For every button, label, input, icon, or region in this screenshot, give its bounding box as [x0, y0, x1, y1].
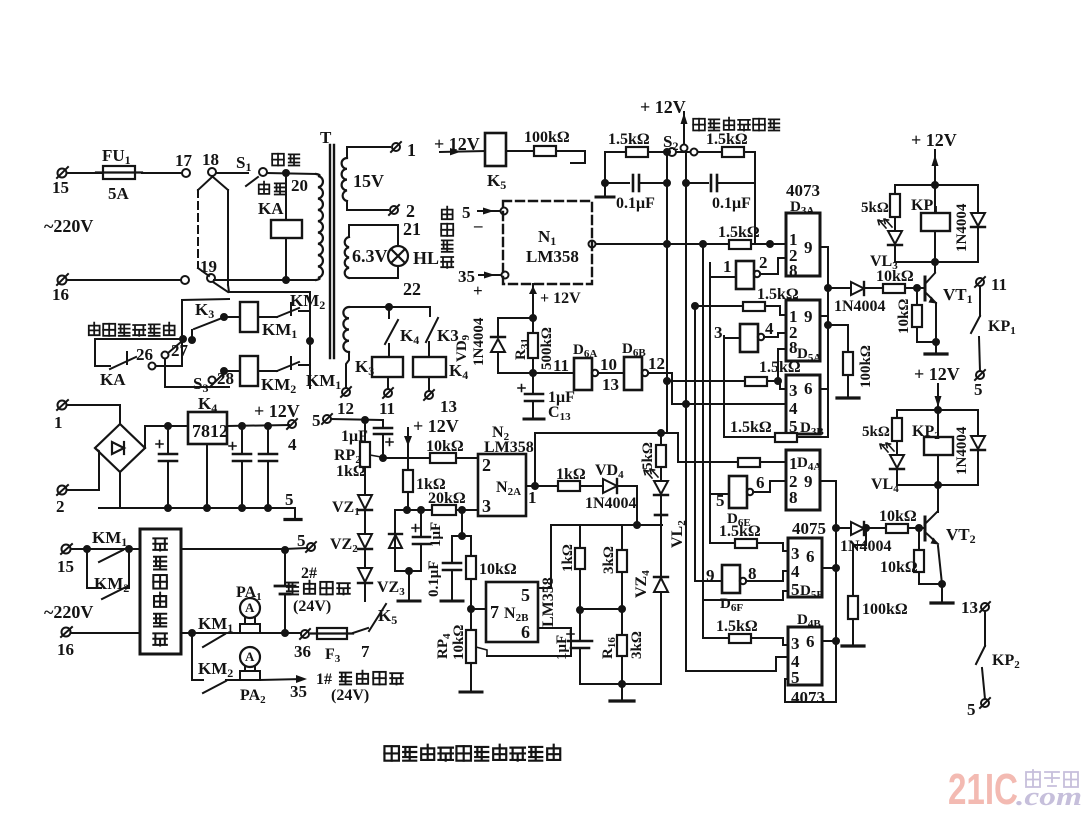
- left branch diode: [394, 510, 396, 571]
- svg-text:3: 3: [482, 496, 491, 516]
- K4 coil to terminal 13: [428, 377, 430, 391]
- working indicator text vertical: [441, 207, 453, 268]
- svg-text:20: 20: [291, 176, 308, 195]
- wire PA2 to terminal 35: [226, 679, 240, 681]
- zener VZ4: [654, 577, 668, 592]
- KM1 blade lower: [99, 550, 123, 562]
- svg-text:10kΩ: 10kΩ: [426, 438, 464, 455]
- caption and watermark: [384, 745, 1082, 814]
- svg-text:–: –: [473, 216, 483, 235]
- transistor VT1: [934, 262, 936, 272]
- wire to KM1 coil: [224, 316, 240, 318]
- pot RP2 1k: [360, 420, 381, 495]
- switch pole 19: [207, 274, 215, 282]
- charger output top wire: [181, 548, 285, 550]
- D3B pin6 stub: [820, 388, 828, 390]
- K3 coil to terminal 11: [387, 377, 389, 389]
- svg-text:3kΩ: 3kΩ: [629, 631, 645, 659]
- inverter D6E: [729, 476, 747, 508]
- S2 to second contact: [676, 151, 690, 153]
- contact circle auto: [259, 168, 267, 176]
- label shou-dong (manual): [259, 182, 286, 195]
- svg-text:LM358: LM358: [526, 247, 579, 266]
- contact KM2 NC: [258, 316, 277, 318]
- svg-text:5: 5: [285, 490, 294, 509]
- resistor R16 3k: [621, 609, 623, 635]
- battery 2 cell: [275, 550, 295, 633]
- vertical bus x667: [666, 152, 668, 433]
- svg-text:+ 12V: + 12V: [914, 364, 960, 384]
- svg-text:1N4004: 1N4004: [954, 426, 970, 475]
- svg-text:1N4004: 1N4004: [954, 203, 970, 252]
- svg-text:36: 36: [294, 642, 311, 661]
- svg-text:2: 2: [482, 455, 491, 475]
- svg-text:3: 3: [791, 544, 800, 563]
- svg-text:21: 21: [403, 219, 421, 239]
- svg-text:HL: HL: [413, 248, 439, 268]
- bus end down stub: [294, 508, 296, 518]
- inverter D6F: [722, 565, 740, 593]
- svg-text:1.5kΩ: 1.5kΩ: [759, 359, 801, 376]
- svg-text:15: 15: [52, 178, 69, 197]
- N1 dashed box: [503, 201, 592, 284]
- svg-text:15: 15: [57, 557, 74, 576]
- svg-text:9: 9: [706, 566, 715, 585]
- wire to terminal 36: [285, 632, 301, 634]
- svg-text:(24V): (24V): [331, 687, 369, 704]
- KA contact circle: [149, 363, 156, 370]
- label gui-zheng-liu-chong-dian-qi vertical: [153, 538, 167, 645]
- contact KM1 NC: [258, 370, 277, 372]
- svg-text:1.5kΩ: 1.5kΩ: [608, 131, 650, 148]
- aux bottom to terminal 12: [346, 352, 349, 388]
- switch K4 contact: [385, 307, 398, 344]
- svg-text:KA: KA: [100, 370, 126, 389]
- 1.5k Rd: [724, 436, 775, 438]
- right bus x836: [820, 481, 836, 702]
- wire PA1 to battery node: [260, 632, 285, 634]
- wire down to KA coil: [285, 173, 287, 220]
- diode VD4: [603, 479, 617, 493]
- svg-text:5A: 5A: [108, 184, 130, 203]
- diode VD9 R31 C13 cluster: [532, 284, 534, 318]
- regulator 7812: [188, 412, 227, 444]
- wire to KM2 coil: [224, 370, 240, 372]
- inverter D6B: [624, 357, 642, 390]
- svg-text:4073: 4073: [786, 181, 820, 200]
- secondary 6.3V winding: [345, 237, 349, 278]
- caption auto rotation auto charging circuit: [384, 745, 560, 761]
- pin7 wire: [471, 608, 486, 610]
- S1 right solid link: [213, 177, 228, 190]
- secondary 15V winding: [342, 158, 347, 201]
- base resistor chain: [828, 287, 851, 289]
- svg-text:13: 13: [440, 397, 457, 416]
- relay K5 box: [485, 133, 506, 166]
- svg-text:10kΩ: 10kΩ: [880, 559, 918, 576]
- svg-text:9: 9: [804, 307, 813, 326]
- switch K3 contact: [426, 307, 438, 342]
- pin5 riser: [538, 525, 551, 588]
- resistor 5k VL3: [894, 185, 896, 194]
- KM2 parallel contact: [87, 549, 101, 588]
- svg-text:+ 12V: + 12V: [911, 130, 957, 150]
- pin3 wire y510: [395, 509, 478, 511]
- svg-text:10: 10: [600, 355, 617, 374]
- watermark dianziwang: [1026, 770, 1078, 787]
- wire 26 down to lower run: [165, 359, 229, 387]
- svg-text:0.1μF: 0.1μF: [426, 561, 442, 597]
- svg-text:20kΩ: 20kΩ: [428, 490, 466, 507]
- svg-text:1kΩ: 1kΩ: [556, 466, 586, 483]
- wire 19 to primary bottom: [214, 279, 316, 281]
- diode 1N4004 KP1: [977, 185, 979, 213]
- svg-text:6: 6: [756, 473, 765, 492]
- vertical bus x724: [723, 336, 725, 437]
- resistor 1k chain: [579, 525, 581, 548]
- N1 pin 5 input: [501, 208, 508, 215]
- svg-text:4075: 4075: [792, 519, 826, 538]
- svg-text:1#: 1#: [316, 671, 332, 688]
- svg-text:10kΩ: 10kΩ: [879, 508, 917, 525]
- S1 blade 18 to auto contact: [216, 172, 248, 174]
- svg-text:8: 8: [789, 261, 798, 280]
- label zi-dong (auto): [272, 154, 299, 166]
- svg-text:100kΩ: 100kΩ: [524, 129, 570, 146]
- cap 0.1uF second: [686, 182, 708, 184]
- svg-text:4: 4: [789, 399, 798, 418]
- svg-text:9: 9: [804, 472, 813, 491]
- svg-text:.com: .com: [1016, 782, 1082, 811]
- svg-text:3: 3: [791, 634, 800, 653]
- svg-text:1: 1: [407, 140, 416, 160]
- D5A pin9 stub: [820, 315, 828, 317]
- svg-text:2: 2: [56, 497, 65, 516]
- wire from 19 down-jogs: [228, 285, 310, 292]
- svg-text:2: 2: [406, 201, 415, 221]
- wire 100k hook: [556, 151, 585, 163]
- inverter D6A: [574, 358, 592, 390]
- D4B pin6 stub: [822, 640, 836, 642]
- N2A output node: [532, 483, 538, 489]
- op-amp N2B box: [486, 582, 538, 642]
- D6B output run to D3B pin4: [648, 373, 786, 404]
- switch S1 pole 18: [208, 168, 216, 176]
- wire F3 to K5: [353, 628, 368, 633]
- diode 1N4004 KP2: [977, 410, 979, 436]
- 6.3V loop bottom: [349, 266, 398, 278]
- 7812 output rail: [227, 425, 289, 426]
- vertical bus x710: [709, 263, 711, 543]
- svg-text:10kΩ: 10kΩ: [479, 561, 517, 578]
- svg-text:1N4004: 1N4004: [585, 495, 637, 512]
- cap 1uF branch: [420, 510, 422, 535]
- VL4 bottom rail: [897, 484, 978, 486]
- svg-text:3: 3: [714, 323, 723, 342]
- wire wiper node to N2A pin2: [383, 457, 478, 459]
- 1.5k first: [605, 151, 626, 153]
- gate D3B: [786, 375, 820, 434]
- bridge right to 7812: [145, 426, 188, 448]
- svg-text:+ 12V: + 12V: [640, 97, 686, 117]
- svg-text:4: 4: [288, 435, 297, 454]
- wire K5 to 100k: [506, 150, 534, 152]
- svg-text:5: 5: [312, 411, 321, 430]
- vertical bus x686: [685, 154, 687, 671]
- cap C-out2: [259, 426, 277, 508]
- wire fuse to 17: [142, 172, 181, 174]
- switch K5 blade: [365, 583, 386, 631]
- svg-text:16: 16: [57, 640, 74, 659]
- cap 0.1uF first: [605, 152, 629, 183]
- N1 output pin: [589, 241, 596, 248]
- svg-text:22: 22: [403, 279, 421, 299]
- svg-text:11: 11: [991, 275, 1007, 294]
- svg-text:7812: 7812: [192, 421, 228, 441]
- svg-text:1μF: 1μF: [428, 522, 444, 547]
- cap 0.1uF branch: [452, 510, 462, 536]
- svg-text:1kΩ: 1kΩ: [560, 544, 576, 572]
- label auto-charge-select: [693, 118, 779, 131]
- resistor 3k chain: [621, 525, 623, 550]
- svg-text:35: 35: [290, 682, 307, 701]
- blade 26 to 27: [168, 342, 181, 353]
- svg-text:5: 5: [791, 668, 800, 687]
- D5B pin6 stub: [822, 567, 836, 569]
- svg-text:A: A: [245, 600, 255, 615]
- svg-text:6: 6: [806, 632, 815, 651]
- bridge rectifier: [95, 424, 145, 472]
- svg-text:21IC: 21IC: [948, 765, 1018, 814]
- N1 pin 35 input: [502, 272, 509, 279]
- svg-text:17: 17: [175, 151, 193, 170]
- svg-text:10kΩ: 10kΩ: [876, 268, 914, 285]
- gate D4B: [788, 627, 822, 685]
- bottom tie and gnd: [395, 570, 421, 572]
- svg-text:4073: 4073: [791, 688, 825, 707]
- svg-text:1.5kΩ: 1.5kΩ: [718, 224, 760, 241]
- relay coil KM2: [240, 356, 258, 386]
- 10k pulldown VT2: [918, 528, 920, 550]
- charger lower output: [181, 632, 240, 634]
- ammeter PA2: [240, 647, 260, 680]
- gate D4A: [786, 450, 820, 510]
- svg-text:5kΩ: 5kΩ: [640, 442, 656, 470]
- terminal 15: [57, 167, 68, 178]
- wire 15V bottom to terminal 2: [347, 201, 388, 210]
- svg-text:+ 12V: + 12V: [540, 290, 581, 307]
- relay coil KM1: [240, 302, 258, 332]
- svg-text:(24V): (24V): [293, 598, 331, 615]
- svg-text:26: 26: [136, 345, 153, 364]
- svg-text:7: 7: [361, 642, 370, 661]
- svg-text:6.3V: 6.3V: [352, 246, 388, 266]
- KM2 meter branch: [192, 633, 203, 680]
- D5B pin5 loop: [703, 591, 788, 600]
- VT2 base chain: [836, 527, 851, 529]
- wire 5 to node: [331, 419, 383, 420]
- transformer T core: [330, 145, 334, 358]
- svg-text:1: 1: [54, 413, 63, 432]
- pin6 feedback wire: [487, 628, 571, 656]
- svg-text:5: 5: [521, 585, 530, 605]
- wire 2 to bridge left: [67, 449, 99, 490]
- LED VL2: [660, 467, 662, 481]
- wire 1 to bridge: [67, 405, 120, 424]
- gate D5A: [786, 300, 820, 361]
- relay coil K3: [388, 344, 390, 357]
- 1.5k second: [698, 151, 722, 153]
- ammeter PA1: [240, 598, 260, 633]
- svg-text:5: 5: [967, 700, 976, 719]
- svg-text:12: 12: [337, 399, 354, 418]
- VL3 bottom rail: [895, 261, 978, 263]
- svg-text:5: 5: [462, 203, 471, 222]
- svg-text:LM358: LM358: [540, 577, 557, 627]
- terminal 4: [287, 419, 297, 429]
- terminal 16 lower: [61, 627, 72, 637]
- relay coil K4: [428, 342, 430, 357]
- 6.3V loop top: [349, 225, 398, 246]
- svg-text:~220V: ~220V: [44, 216, 93, 236]
- svg-text:13: 13: [602, 375, 619, 394]
- VD4 to node: [617, 486, 637, 525]
- svg-text:1kΩ: 1kΩ: [336, 463, 366, 480]
- svg-text:1N4004: 1N4004: [471, 317, 487, 366]
- branch to 1.5k D4A: [661, 433, 738, 462]
- S1 ganged-link dashed: [198, 177, 212, 190]
- wire manual select: [95, 338, 183, 340]
- gate D3A: [786, 213, 820, 276]
- 1.5k Re to D4A: [738, 458, 760, 467]
- svg-text:5kΩ: 5kΩ: [862, 424, 890, 440]
- wire 15V top to terminal 1: [347, 147, 390, 158]
- aux top wire: [349, 306, 430, 308]
- bridge bottom to gnd bus: [119, 472, 121, 508]
- svg-text:1.5kΩ: 1.5kΩ: [716, 618, 758, 635]
- svg-text:15V: 15V: [353, 171, 384, 191]
- svg-text:6: 6: [521, 622, 530, 642]
- svg-text:A: A: [245, 649, 255, 664]
- svg-text:16: 16: [52, 285, 69, 304]
- 1.5k Ra: [729, 240, 751, 249]
- wire 15 to fuse: [67, 172, 103, 174]
- svg-text:+ 12V: + 12V: [413, 416, 459, 436]
- resistor 5k vertical: [660, 433, 662, 445]
- 100k to gnd: [828, 325, 848, 352]
- 1.5k Rb to D5A: [695, 305, 743, 307]
- wire KA to lower rail: [285, 238, 287, 280]
- svg-text:2: 2: [759, 253, 768, 272]
- KP1 contact: [975, 277, 985, 287]
- D4B pin4 wire: [686, 657, 788, 671]
- svg-text:+: +: [473, 281, 483, 300]
- resistor 1k vertical: [403, 470, 413, 492]
- node circle before 19: [181, 276, 189, 284]
- wire 16 to switch 19: [67, 279, 181, 281]
- svg-text:10kΩ: 10kΩ: [451, 625, 467, 660]
- fuse F3: [311, 628, 353, 639]
- svg-text:4: 4: [791, 562, 800, 581]
- 1.5k Rg to D4B: [703, 637, 729, 639]
- zener VZ3: [364, 549, 366, 568]
- svg-text:12: 12: [648, 354, 665, 373]
- vertical bus right of KM coils: [309, 292, 311, 388]
- wire 15 to charger: [71, 548, 140, 550]
- output to 1k VD4: [535, 485, 558, 487]
- wire to terminal 5 battery: [285, 548, 306, 549]
- VD9 loop: [498, 318, 533, 336]
- svg-text:1.5kΩ: 1.5kΩ: [730, 419, 772, 436]
- vertical x755 cap to gate rail: [754, 183, 756, 244]
- D5A pin8 tie: [778, 349, 786, 381]
- svg-text:0.1μF: 0.1μF: [616, 195, 655, 212]
- 1.5k Rf to D5B: [710, 542, 735, 544]
- relay coil KA: [271, 220, 302, 238]
- resistor 5k VL4: [896, 410, 898, 418]
- 7812 gnd pin: [206, 444, 208, 508]
- right bus x828: [820, 247, 828, 437]
- zener VZ1: [358, 495, 372, 510]
- 10k pulldown VT1: [916, 288, 918, 305]
- svg-text:4: 4: [765, 319, 774, 338]
- svg-text:5: 5: [791, 580, 800, 599]
- charger box: [140, 529, 181, 654]
- svg-text:1: 1: [528, 488, 537, 507]
- resistor 100k: [534, 146, 556, 156]
- wire 16 to charger: [71, 632, 140, 634]
- inverter D6D: [740, 324, 758, 352]
- svg-text:LM358: LM358: [484, 439, 534, 456]
- svg-text:1: 1: [723, 257, 732, 276]
- svg-text:100kΩ: 100kΩ: [858, 345, 874, 388]
- svg-text:9: 9: [804, 238, 813, 257]
- resistor 10k horizontal: [430, 453, 456, 463]
- fuse FU1 5A: [96, 166, 142, 179]
- svg-text:+ 12V: + 12V: [254, 401, 300, 421]
- LED VL4: [880, 443, 904, 469]
- svg-text:1N4004: 1N4004: [834, 298, 886, 315]
- svg-text:0.1μF: 0.1μF: [712, 195, 751, 212]
- cap 1uF at N2B: [579, 610, 581, 639]
- secondary aux winding: [343, 307, 349, 352]
- svg-text:1.5kΩ: 1.5kΩ: [719, 523, 761, 540]
- transformer primary winding: [316, 174, 323, 280]
- op-amp N2A box: [478, 454, 526, 516]
- node 20 junction: [283, 170, 289, 176]
- N1 output wire long: [596, 243, 729, 245]
- svg-text:10kΩ: 10kΩ: [896, 299, 912, 334]
- gate D5B: [788, 538, 822, 597]
- resistor 1k at VD4: [558, 481, 580, 491]
- svg-text:8: 8: [789, 488, 798, 507]
- blade to KM2 coil node: [210, 373, 224, 387]
- vertical bus x695: [694, 306, 696, 581]
- svg-text:T: T: [320, 128, 332, 147]
- svg-text:5: 5: [297, 531, 306, 550]
- svg-text:~220V: ~220V: [44, 602, 93, 622]
- terminal 16: [57, 274, 68, 285]
- node 17: [182, 169, 190, 177]
- KA contact branch: [95, 339, 110, 366]
- label ren-gong-chong-dian-xuan-ze: [89, 323, 175, 336]
- transistor VT2: [937, 485, 939, 512]
- svg-text:3: 3: [789, 381, 798, 400]
- terminal 1: [57, 400, 68, 410]
- KA contact blade: [110, 352, 136, 369]
- LED VL3: [878, 219, 902, 245]
- svg-text:6: 6: [804, 379, 813, 398]
